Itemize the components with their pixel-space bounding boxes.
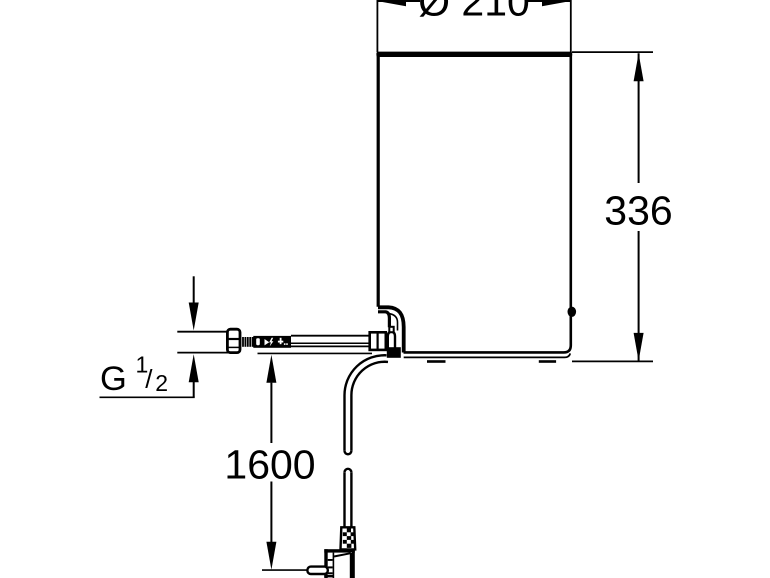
strain relief body [341, 527, 356, 549]
plug pin [307, 567, 327, 574]
plug left column bar pin top [328, 566, 333, 568]
unit foot right [539, 360, 556, 363]
cable break upper cap [345, 451, 352, 454]
extension line top left [376, 0, 378, 52]
power cable lower left line [343, 472, 345, 527]
dimension 1600 arrow up [266, 355, 276, 383]
power cable curve inner [351, 362, 388, 451]
cable break lower cap [345, 469, 352, 472]
unit body left side [377, 54, 380, 307]
dimension 336 extension line top [572, 51, 653, 53]
inlet black block [387, 347, 401, 358]
dimension 1600 line lower [270, 482, 272, 543]
inlet knob tab [389, 327, 393, 332]
dimension 336 line upper [638, 53, 640, 183]
swivel nut facet line lower [228, 346, 240, 348]
strain relief checker texture [343, 529, 355, 548]
unit inlet nut divider [377, 332, 379, 350]
dimension 1600 line upper [270, 383, 272, 443]
extension line top right [570, 0, 572, 52]
hose guide hook outer [378, 307, 404, 352]
dimension 336 extension line bottom [572, 360, 653, 362]
svg-text:1600: 1600 [224, 442, 315, 488]
hose label icon bar [256, 338, 260, 345]
plug right edge [352, 549, 355, 578]
dimension G1/2 leader line [100, 396, 195, 398]
dimension 1600 arrow down [266, 542, 276, 570]
plug face slant line [334, 553, 351, 556]
dimension 1600 extension line bottom [262, 569, 308, 571]
plug left edge [324, 549, 327, 578]
svg-text:Ø 210: Ø 210 [418, 0, 530, 25]
dimension G1/2 lower line [193, 382, 195, 397]
swivel nut G1/2 [227, 329, 240, 352]
dimension 336 arrow down [634, 333, 644, 361]
unit body right side and bottom edge [404, 54, 571, 352]
dimension 1600 reference line top [258, 352, 373, 354]
unit foot left [427, 360, 446, 363]
hose bottom line [291, 345, 371, 347]
plug left column bar pin bottom [328, 572, 333, 574]
hose label icon plus arrow [278, 338, 283, 344]
inlet knob dome [388, 332, 395, 350]
top dimension line right segment [528, 0, 571, 2]
power cable curve outer [344, 355, 386, 451]
dimension G1/2 upper line [193, 276, 195, 303]
top dimension arrow left [377, 0, 406, 6]
dimension G1/2 arrow up [189, 354, 199, 382]
hose label box [253, 336, 291, 348]
plug left column bar upper [328, 559, 333, 561]
unit body top edge [376, 52, 572, 57]
plug top edge [324, 549, 355, 552]
inlet pipe top line [177, 331, 228, 333]
swivel nut facet line upper [228, 338, 240, 340]
hose guide hook middle line [389, 314, 398, 331]
unit base skirt line [404, 353, 571, 357]
hose guide hook inner [378, 312, 389, 327]
inlet pipe bottom line [177, 352, 228, 354]
plug inner divider [333, 553, 335, 578]
dimension 336 line lower [638, 231, 640, 361]
hose label icon dots [284, 343, 286, 345]
dimension G1/2 arrow down [189, 303, 199, 331]
dimension 336 arrow up [634, 53, 644, 81]
crimp ferrule hatch [243, 337, 253, 347]
power cable lower right line [350, 472, 352, 527]
hose middle line [291, 342, 371, 344]
plug left column bar bottom [324, 575, 334, 577]
svg-text:/: / [145, 364, 153, 394]
hose label icon triangle [265, 339, 270, 345]
plug face right line [350, 553, 352, 578]
unit inlet nut [370, 332, 386, 350]
top dimension arrow right [542, 0, 571, 6]
svg-text:336: 336 [604, 188, 672, 234]
svg-text:2: 2 [155, 370, 168, 396]
hose label icon lightning [269, 338, 273, 347]
side oval detail on right edge [568, 307, 577, 317]
top dimension line left segment [377, 0, 420, 2]
hose top line [291, 335, 371, 337]
svg-text:G: G [100, 360, 127, 398]
